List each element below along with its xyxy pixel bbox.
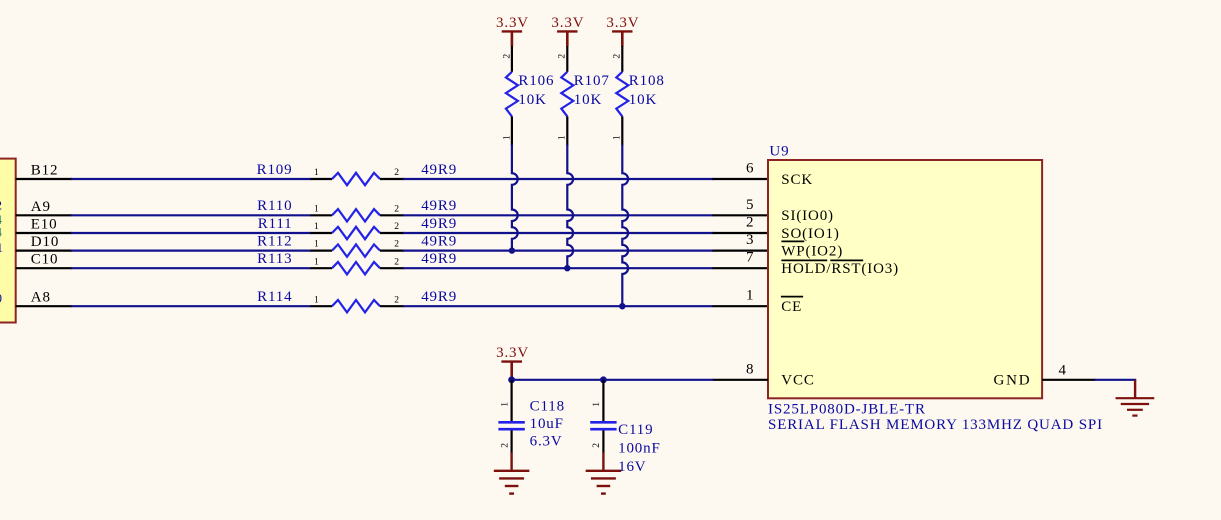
- wire GND pin to ground: [1095, 379, 1137, 381]
- wire R107 down with hops: [567, 145, 573, 269]
- svg-text:WP(IO2): WP(IO2): [781, 243, 843, 259]
- svg-text:R106: R106: [518, 73, 554, 89]
- svg-text:D10: D10: [31, 234, 59, 250]
- capacitor C119 plates: [590, 421, 616, 424]
- resistor R113 body: [332, 262, 380, 274]
- capacitor C118 pin number 2: [499, 443, 510, 448]
- svg-text:100nF: 100nF: [618, 440, 661, 456]
- svg-text:2: 2: [746, 215, 754, 231]
- capacitor C119 pin 1 lead: [602, 380, 604, 421]
- svg-text:R111: R111: [258, 216, 293, 232]
- capacitor C118 pin number 1: [499, 402, 510, 407]
- overbar CE: [781, 296, 803, 298]
- svg-text:10uF: 10uF: [530, 416, 564, 432]
- capacitor C118 pin 1 lead: [511, 380, 513, 421]
- svg-text:2: 2: [501, 54, 512, 59]
- svg-text:2: 2: [591, 443, 602, 448]
- svg-text:1: 1: [557, 135, 568, 140]
- resistor R107 body: [561, 72, 573, 117]
- junction at R108 net: [619, 303, 625, 309]
- resistor R107 pin number 1: [557, 135, 568, 140]
- svg-text:C118: C118: [530, 398, 565, 414]
- U9 pin lead (B12 row): [713, 178, 769, 180]
- svg-text:10K: 10K: [629, 92, 657, 108]
- svg-text:2: 2: [499, 443, 510, 448]
- overbar WP: [781, 240, 804, 242]
- resistor R114 body: [332, 300, 380, 312]
- U9 pin lead (E10 row): [713, 232, 769, 234]
- resistor R110 pin 2 lead: [380, 214, 404, 216]
- svg-text:IS25LP080D-JBLE-TR: IS25LP080D-JBLE-TR: [768, 401, 926, 417]
- svg-text:CE: CE: [781, 299, 802, 315]
- ground stem under C118: [510, 453, 512, 471]
- U9 pin lead (C10 row): [713, 267, 769, 269]
- svg-text:2: 2: [394, 167, 399, 178]
- svg-text:7: 7: [746, 250, 754, 266]
- resistor R111 body: [332, 227, 380, 239]
- svg-text:HOLD/RST(IO3): HOLD/RST(IO3): [781, 261, 899, 277]
- svg-text:1: 1: [0, 240, 3, 255]
- svg-text:3.3V: 3.3V: [496, 345, 529, 361]
- partial pin-name text fragments inside left connector: [0, 198, 3, 306]
- pin of left connector (B12 row): [16, 178, 72, 180]
- U9 pin lead GND: [1042, 379, 1095, 381]
- ground GND stem (right): [1134, 380, 1136, 398]
- svg-text:A9: A9: [31, 199, 51, 215]
- wire R112 pin2 to U9: [403, 250, 714, 252]
- resistor R107 pin number 2: [557, 54, 568, 59]
- junction at R106 net: [509, 247, 515, 253]
- svg-text:R107: R107: [574, 73, 610, 89]
- svg-text:1: 1: [612, 135, 623, 140]
- capacitor C119 pin 2 lead: [602, 430, 604, 452]
- pin of left connector (C10 row): [16, 267, 72, 269]
- resistor R106 pin 2 lead: [511, 46, 513, 72]
- resistor R108 pin 2 lead: [621, 46, 623, 72]
- U9 pin lead VCC: [713, 379, 769, 381]
- ground symbol under C118: [494, 470, 529, 472]
- svg-text:10K: 10K: [574, 92, 602, 108]
- wire R108 down with hops: [622, 145, 628, 307]
- svg-text:2: 2: [394, 203, 399, 214]
- svg-text:R110: R110: [257, 198, 292, 214]
- svg-text:1: 1: [314, 203, 319, 214]
- resistor R108 pin number 2: [612, 54, 623, 59]
- svg-text:49R9: 49R9: [421, 289, 457, 305]
- svg-text:1: 1: [501, 135, 512, 140]
- svg-text:2: 2: [612, 54, 623, 59]
- svg-text:2: 2: [394, 239, 399, 250]
- wire R114 pin2 to U9: [403, 305, 714, 307]
- svg-text:3: 3: [746, 232, 754, 248]
- U9 pin lead (A9 row): [713, 214, 769, 216]
- svg-text:GND: GND: [993, 373, 1031, 389]
- svg-text:49R9: 49R9: [421, 233, 457, 249]
- svg-text:6.3V: 6.3V: [530, 434, 563, 450]
- svg-text:U9: U9: [769, 144, 789, 160]
- svg-text:5: 5: [746, 197, 754, 213]
- svg-text:49R9: 49R9: [421, 251, 457, 267]
- resistor R108 body: [616, 72, 628, 117]
- svg-text:SO(IO1): SO(IO1): [781, 226, 839, 242]
- svg-text:A8: A8: [31, 290, 51, 306]
- wire R106 down with hops: [512, 145, 518, 251]
- resistor R112 pin 2 lead: [380, 250, 404, 252]
- svg-text:0: 0: [0, 291, 2, 306]
- junction at R107 net: [564, 265, 570, 271]
- pin of left connector (A8 row): [16, 305, 72, 307]
- svg-text:B12: B12: [31, 163, 59, 179]
- svg-text:2: 2: [394, 256, 399, 267]
- ground stem under C119: [602, 453, 604, 471]
- pin of left connector (A9 row): [16, 214, 72, 216]
- junction at 3.3V/C118: [508, 376, 515, 383]
- resistor R112 body: [332, 244, 380, 256]
- svg-text:E10: E10: [31, 217, 58, 233]
- svg-text:1: 1: [591, 402, 602, 407]
- resistor R112 pin 1 lead: [310, 250, 332, 252]
- svg-text:10K: 10K: [518, 92, 546, 108]
- resistor R106 pin number 1: [501, 135, 512, 140]
- wire E10 to R111 pin1: [71, 232, 311, 234]
- resistor R110 pin 1 lead: [310, 214, 332, 216]
- resistor R106 pin number 2: [501, 54, 512, 59]
- svg-text:49R9: 49R9: [421, 198, 457, 214]
- svg-text:3.3V: 3.3V: [606, 15, 639, 31]
- svg-text:4: 4: [1059, 363, 1067, 379]
- svg-text:1: 1: [746, 288, 754, 304]
- resistor R108 pin number 1: [612, 135, 623, 140]
- svg-text:2: 2: [557, 54, 568, 59]
- capacitor C118 pin 2 lead: [511, 430, 513, 452]
- wire R111 pin2 to U9: [403, 232, 714, 234]
- pin of left connector (E10 row): [16, 232, 72, 234]
- capacitor C119 pin number 1: [591, 402, 602, 407]
- svg-text:1: 1: [314, 221, 319, 232]
- svg-text:R112: R112: [257, 233, 292, 249]
- resistor R106 pin 1 lead: [511, 116, 513, 145]
- resistor R114 pin 2 lead: [380, 305, 404, 307]
- resistor R110 body: [332, 209, 380, 221]
- svg-text:R114: R114: [257, 289, 292, 305]
- svg-text:3.3V: 3.3V: [496, 15, 529, 31]
- wire A9 to R110 pin1: [71, 214, 311, 216]
- resistor R113 pin 1 lead: [310, 267, 332, 269]
- svg-text:2: 2: [0, 198, 2, 213]
- junction at C119: [600, 376, 607, 383]
- svg-text:49R9: 49R9: [421, 216, 457, 232]
- svg-text:C10: C10: [31, 252, 59, 268]
- svg-text:R109: R109: [257, 162, 293, 178]
- svg-text:1: 1: [314, 294, 319, 305]
- capacitor C118 plates: [498, 421, 524, 424]
- capacitor C119 pin number 2: [591, 443, 602, 448]
- wire A8 to R114 pin1: [71, 305, 311, 307]
- ground symbol (right of U9): [1116, 397, 1155, 399]
- ground symbol under C119: [586, 470, 622, 472]
- resistor R114 pin 1 lead: [310, 305, 332, 307]
- U9 pin lead (A8 row): [713, 305, 769, 307]
- overbar HOLD/: [781, 259, 827, 261]
- wire R110 pin2 to U9: [403, 214, 714, 216]
- wire R113 pin2 to U9: [403, 267, 714, 269]
- resistor R111 pin 2 lead: [380, 232, 404, 234]
- svg-text:2: 2: [394, 221, 399, 232]
- resistor R107 pin 1 lead: [566, 116, 568, 145]
- svg-text:SERIAL FLASH MEMORY 133MHZ QUA: SERIAL FLASH MEMORY 133MHZ QUAD SPI: [768, 417, 1103, 433]
- resistor R108 pin 1 lead: [621, 116, 623, 145]
- svg-text:SCK: SCK: [781, 172, 813, 188]
- svg-text:R108: R108: [629, 73, 665, 89]
- svg-text:C119: C119: [618, 422, 653, 438]
- resistor R111 pin 1 lead: [310, 232, 332, 234]
- svg-text:1: 1: [314, 256, 319, 267]
- svg-text:R113: R113: [257, 251, 292, 267]
- pin of left connector (D10 row): [16, 250, 72, 252]
- wire R109 pin2 to U9: [403, 178, 714, 180]
- svg-text:8: 8: [746, 361, 754, 377]
- U9 pin lead (D10 row): [713, 250, 769, 252]
- svg-text:6: 6: [746, 161, 754, 177]
- resistor R109 body: [332, 173, 380, 185]
- svg-text:VCC: VCC: [781, 373, 814, 389]
- resistor R109 pin 1 lead: [310, 178, 332, 180]
- svg-text:2: 2: [394, 294, 399, 305]
- svg-text:1: 1: [499, 402, 510, 407]
- wire B12 to R109 pin1: [71, 178, 311, 180]
- svg-text:16V: 16V: [618, 459, 646, 475]
- resistor R113 pin 2 lead: [380, 267, 404, 269]
- wire D10 to R112 pin1: [71, 250, 311, 252]
- overbar RST: [830, 259, 863, 261]
- resistor R106 body: [506, 72, 518, 117]
- wire VCC rail: [512, 379, 714, 381]
- wire C10 to R113 pin1: [71, 267, 311, 269]
- svg-text:1: 1: [314, 239, 319, 250]
- svg-text:49R9: 49R9: [421, 162, 457, 178]
- svg-text:1: 1: [314, 167, 319, 178]
- svg-text:SI(IO0): SI(IO0): [781, 208, 834, 224]
- resistor R107 pin 2 lead: [566, 46, 568, 72]
- resistor R109 pin 2 lead: [380, 178, 404, 180]
- svg-text:3.3V: 3.3V: [551, 15, 584, 31]
- connector J? (partial, off-canvas left): [0, 159, 16, 323]
- IC U9 body: [768, 160, 1042, 398]
